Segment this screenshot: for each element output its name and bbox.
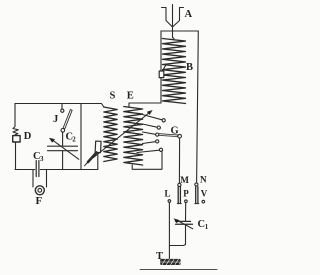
svg-text:E: E [127,91,134,102]
wire left circuit bottom [15,169,98,171]
capacitor C1 [174,219,193,229]
contact c2 [157,126,160,129]
terminal N [195,183,198,186]
wire antenna stem into coil B [173,31,175,39]
coupling arrow [94,110,153,157]
svg-text:V: V [201,189,208,199]
telephone receiver F [33,170,47,195]
svg-text:S: S [110,91,116,102]
svg-text:2: 2 [72,136,76,144]
wire L down to ground [168,202,170,261]
capacitor C2 [48,138,79,159]
contact c1 [162,119,165,122]
tap wire t1 [143,115,163,120]
svg-text:P: P [183,188,189,198]
wire B-left down to coil E top [129,103,161,107]
selector arm G [159,134,178,137]
terminal P [185,200,188,203]
svg-text:G: G [171,125,179,136]
ground T hatch [160,259,180,265]
wire C2 to bottom [62,151,64,170]
tap wire t2 [143,124,158,127]
wire P down to C1 [185,203,187,222]
page rule line [140,268,217,270]
svg-text:L: L [165,188,171,198]
svg-text:B: B [186,62,193,73]
jack bars N-V [196,187,198,203]
wire B left vertical [160,31,162,103]
wire E bottom to c5 [132,152,162,170]
switch J stub and contact [61,104,63,110]
wire pivot to M [178,138,180,183]
wire J to C2 [62,132,64,146]
terminal V [202,200,205,203]
slider handle pencil [88,153,97,163]
tap wire t5 [137,150,159,152]
wire antenna top horizontal [161,30,198,32]
svg-text:M: M [180,175,189,185]
svg-text:1: 1 [205,223,209,231]
switch J blade [63,110,72,129]
tap wire t4 [143,142,156,144]
wire left circuit right edge [80,104,82,170]
slider tap on coil B [159,65,165,77]
wire left circuit top [15,104,104,108]
coil B [163,39,186,104]
svg-text:N: N [200,175,207,185]
contact c3 [156,133,159,136]
svg-text:F: F [36,195,43,207]
detector D [13,127,20,143]
contact c4 [156,140,159,143]
wire right side down to N [197,31,199,183]
selector pivot [178,134,182,138]
wire left circuit left edge upper [14,104,16,127]
tap wire t3 [143,132,156,134]
capacitor C3 [36,161,39,177]
terminal M [178,183,181,186]
svg-text:3: 3 [40,155,44,163]
switch J pivot [61,129,65,133]
jack bars M-P [178,187,180,203]
wire left circuit left edge lower [15,142,17,170]
contact c5 [159,148,162,151]
terminal L [168,200,171,203]
slider rod on coil S [97,153,99,170]
svg-text:A: A [185,9,193,20]
coil E [124,107,143,166]
wire C1 down elbow to L wire [169,224,185,245]
coil S [104,107,117,162]
svg-text:J: J [53,114,58,125]
slider block on coil S [95,141,101,153]
svg-text:D: D [24,131,32,142]
antenna A [162,5,184,32]
